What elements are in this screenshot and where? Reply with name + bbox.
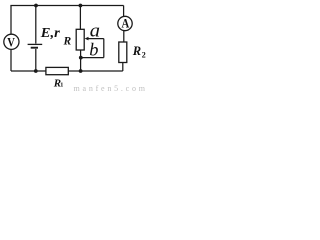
wire R top	[79, 6, 81, 30]
battery E,r	[28, 44, 43, 47]
wiper arrow	[85, 37, 89, 41]
resistor R2 box	[119, 42, 127, 63]
wire wiper horizontal	[88, 38, 104, 40]
wire wiper loop bottom	[81, 57, 104, 59]
svg-text:R: R	[132, 44, 141, 58]
junction dot battery bottom	[34, 69, 38, 73]
wire wiper right vertical	[103, 39, 105, 58]
ammeter A	[118, 16, 132, 30]
wire ammeter to R2	[123, 31, 125, 42]
svg-text:2: 2	[142, 50, 146, 59]
svg-text:manfen5.com: manfen5.com	[74, 84, 146, 92]
junction dot battery top	[34, 4, 38, 8]
svg-text:R: R	[63, 35, 72, 47]
wire right top vertical	[123, 6, 125, 17]
junction dot R bottom	[79, 69, 83, 73]
voltmeter V	[4, 34, 19, 49]
wire bottom left	[11, 70, 46, 72]
rheostat R box	[76, 29, 84, 50]
wire R bottom	[80, 50, 82, 71]
svg-text:b: b	[89, 40, 98, 60]
wire battery top	[35, 6, 37, 44]
wire left lower	[10, 49, 12, 71]
resistor R1 box	[46, 67, 68, 74]
wire top	[10, 5, 123, 7]
wire battery bottom	[35, 49, 37, 71]
junction dot wiper loop	[79, 56, 83, 60]
junction dot R top	[79, 4, 83, 8]
wire R2 bottom riser	[122, 63, 124, 72]
svg-text:V: V	[7, 37, 15, 50]
wire bottom right	[68, 70, 123, 72]
svg-text:A: A	[121, 18, 129, 31]
svg-text:E,r: E,r	[40, 25, 61, 40]
wire left upper	[10, 6, 12, 35]
svg-text:a: a	[90, 20, 100, 41]
svg-text:1: 1	[60, 82, 63, 89]
